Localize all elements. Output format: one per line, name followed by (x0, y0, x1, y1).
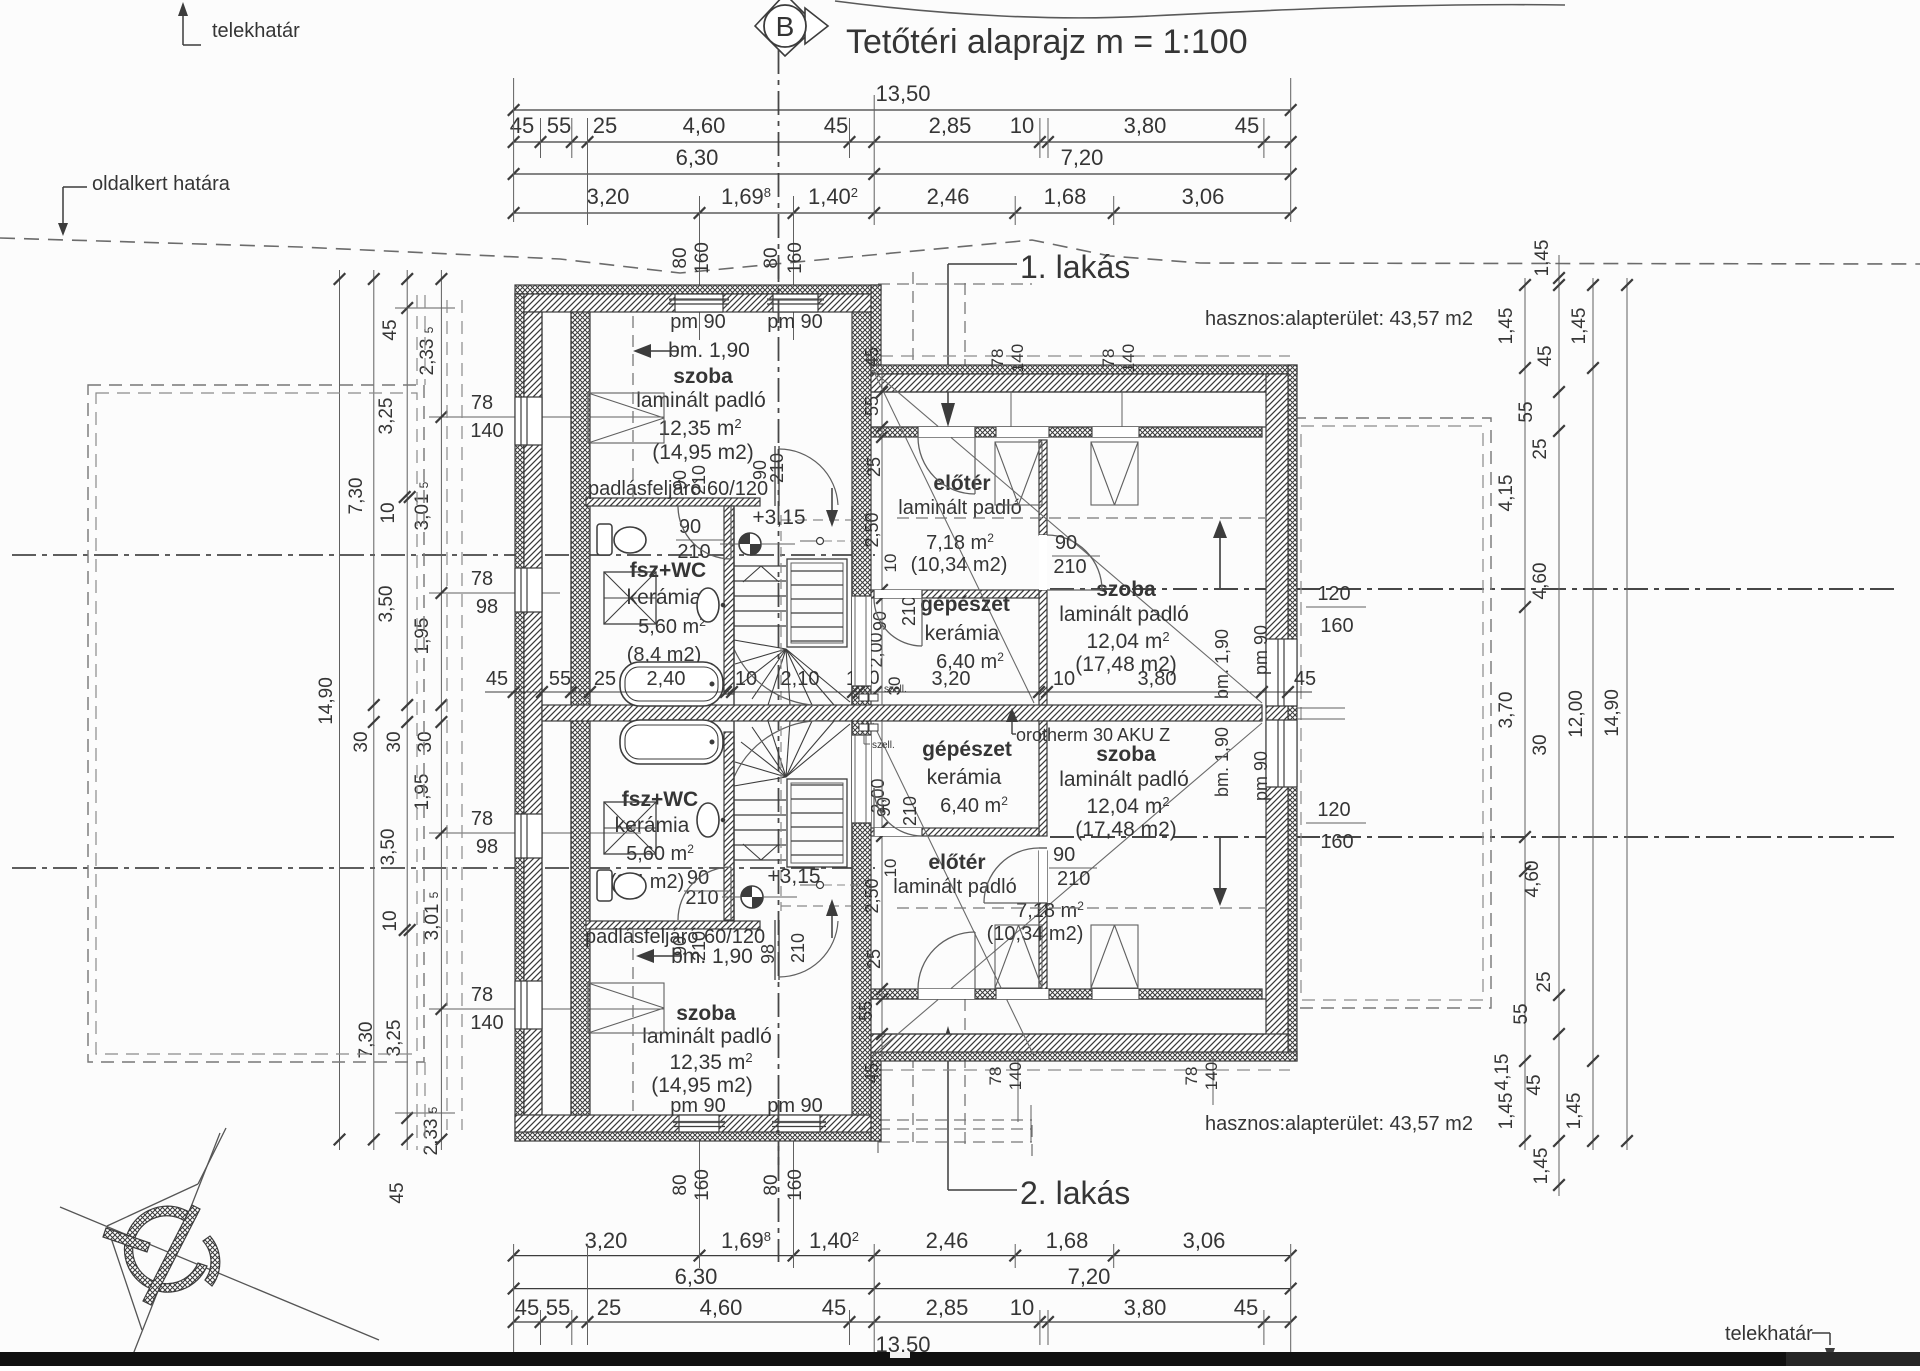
svg-text:160: 160 (692, 1169, 713, 1201)
svg-text:140: 140 (470, 420, 503, 442)
svg-text:oldalkert határa: oldalkert határa (92, 173, 231, 195)
svg-text:7,20: 7,20 (1068, 1264, 1111, 1289)
svg-text:3,50: 3,50 (376, 586, 397, 623)
svg-text:2,46: 2,46 (926, 1228, 969, 1253)
svg-text:90: 90 (1055, 532, 1077, 554)
svg-text:90: 90 (670, 936, 690, 956)
svg-text:2,33: 2,33 (421, 1119, 442, 1156)
svg-text:2,33: 2,33 (417, 339, 438, 376)
svg-text:pm 90: pm 90 (1251, 625, 1271, 675)
svg-text:fsz+WC: fsz+WC (622, 788, 698, 811)
svg-text:2,40: 2,40 (647, 668, 686, 690)
svg-text:10: 10 (881, 554, 900, 573)
svg-text:120: 120 (1317, 799, 1350, 821)
svg-text:45: 45 (822, 1295, 846, 1320)
svg-text:90: 90 (670, 470, 690, 490)
svg-text:szell.: szell. (872, 740, 895, 751)
svg-text:4,60: 4,60 (1522, 861, 1543, 898)
svg-text:3,20: 3,20 (585, 1228, 628, 1253)
svg-text:B: B (776, 11, 795, 42)
svg-text:12,04 m2: 12,04 m2 (1086, 794, 1169, 818)
svg-text:80: 80 (670, 1174, 691, 1195)
svg-text:3,01: 3,01 (412, 494, 433, 531)
svg-text:210: 210 (788, 933, 808, 963)
svg-text:7,30: 7,30 (346, 478, 367, 515)
svg-text:laminált padló: laminált padló (893, 876, 1016, 898)
svg-text:160: 160 (785, 242, 806, 274)
svg-text:45: 45 (1234, 1295, 1258, 1320)
svg-text:14,90: 14,90 (1602, 689, 1623, 737)
svg-text:45: 45 (1235, 113, 1259, 138)
svg-text:5: 5 (417, 481, 431, 488)
svg-text:55: 55 (546, 1295, 570, 1320)
svg-text:140: 140 (1202, 1062, 1221, 1090)
svg-text:(17,48 m2): (17,48 m2) (1075, 818, 1177, 841)
svg-text:98: 98 (476, 596, 498, 618)
svg-text:szoba: szoba (1096, 743, 1156, 766)
svg-text:10: 10 (1053, 668, 1075, 690)
svg-text:30: 30 (415, 731, 436, 752)
svg-text:pm 90: pm 90 (670, 1095, 726, 1117)
svg-text:80: 80 (670, 247, 691, 268)
svg-text:pm 90: pm 90 (670, 311, 726, 333)
svg-text:210: 210 (685, 887, 718, 909)
svg-text:140: 140 (1008, 344, 1027, 372)
svg-text:3,06: 3,06 (1182, 184, 1225, 209)
svg-text:bm. 1,90: bm. 1,90 (1212, 727, 1232, 797)
svg-text:12,04 m2: 12,04 m2 (1086, 629, 1169, 653)
svg-text:78: 78 (986, 1067, 1005, 1086)
svg-text:45: 45 (1535, 345, 1556, 366)
svg-text:kerámia: kerámia (925, 622, 1000, 645)
svg-text:2. lakás: 2. lakás (1020, 1175, 1130, 1211)
svg-text:gépészet: gépészet (920, 593, 1010, 616)
svg-text:10: 10 (378, 502, 399, 523)
svg-text:160: 160 (1320, 831, 1353, 853)
svg-text:25: 25 (593, 113, 617, 138)
svg-text:78: 78 (1182, 1067, 1201, 1086)
svg-text:7,30: 7,30 (356, 1022, 377, 1059)
svg-text:laminált padló: laminált padló (1059, 768, 1189, 791)
svg-text:laminált padló: laminált padló (898, 497, 1021, 519)
svg-text:25: 25 (1534, 971, 1555, 992)
svg-text:1,45: 1,45 (1532, 240, 1553, 277)
svg-text:szoba: szoba (673, 365, 733, 388)
svg-text:13,50: 13,50 (875, 81, 930, 106)
svg-text:3,80: 3,80 (1138, 668, 1177, 690)
svg-text:hasznos:alapterület: 43,57 m2: hasznos:alapterület: 43,57 m2 (1205, 308, 1473, 330)
svg-text:(14,95 m2): (14,95 m2) (652, 441, 754, 464)
svg-text:pm 90: pm 90 (767, 311, 823, 333)
svg-text:78: 78 (471, 984, 493, 1006)
svg-text:55: 55 (549, 668, 571, 690)
svg-text:210: 210 (689, 465, 709, 495)
svg-text:3,25: 3,25 (376, 398, 397, 435)
svg-text:1. lakás: 1. lakás (1020, 249, 1130, 285)
svg-text:10: 10 (881, 859, 900, 878)
svg-text:6,30: 6,30 (676, 145, 719, 170)
svg-text:45: 45 (862, 347, 882, 367)
svg-text:3,80: 3,80 (1124, 1295, 1167, 1320)
svg-text:160: 160 (785, 1169, 806, 1201)
svg-text:kerámia: kerámia (615, 814, 690, 837)
svg-text:4,15: 4,15 (1492, 1054, 1513, 1091)
svg-text:7,18 m2: 7,18 m2 (926, 531, 994, 554)
svg-text:1,95: 1,95 (412, 618, 433, 655)
svg-text:55: 55 (1511, 1003, 1532, 1024)
svg-text:szell.: szell. (884, 684, 907, 695)
svg-text:45: 45 (1294, 668, 1316, 690)
svg-text:5,60 m2: 5,60 m2 (638, 615, 706, 638)
svg-text:5: 5 (422, 326, 436, 333)
svg-text:4,60: 4,60 (1530, 563, 1551, 600)
svg-text:3,20: 3,20 (587, 184, 630, 209)
svg-text:2,10: 2,10 (781, 668, 820, 690)
svg-text:25: 25 (1530, 438, 1551, 459)
svg-text:1,698: 1,698 (721, 1228, 771, 1253)
svg-text:1,45: 1,45 (1564, 1093, 1585, 1130)
svg-text:98: 98 (476, 836, 498, 858)
svg-text:25: 25 (864, 949, 884, 969)
svg-text:30: 30 (351, 731, 372, 752)
svg-text:45: 45 (486, 668, 508, 690)
svg-text:45: 45 (1524, 1074, 1545, 1095)
svg-text:90: 90 (1053, 844, 1075, 866)
svg-text:5: 5 (427, 891, 441, 898)
svg-text:78: 78 (1099, 349, 1118, 368)
svg-text:1,402: 1,402 (808, 184, 858, 209)
svg-text:Tetőtéri alaprajz m = 1:100: Tetőtéri alaprajz m = 1:100 (846, 23, 1248, 61)
svg-text:+3,15: +3,15 (767, 865, 820, 888)
svg-text:1,402: 1,402 (809, 1228, 859, 1253)
svg-text:10: 10 (735, 668, 757, 690)
svg-text:10: 10 (1010, 113, 1034, 138)
svg-text:55: 55 (856, 1001, 876, 1021)
svg-text:55: 55 (1516, 401, 1537, 422)
svg-text:140: 140 (1006, 1062, 1025, 1090)
svg-text:szoba: szoba (676, 1002, 736, 1025)
svg-text:3,70: 3,70 (1496, 692, 1517, 729)
svg-text:78: 78 (471, 808, 493, 830)
svg-text:10: 10 (380, 910, 401, 931)
svg-text:3,06: 3,06 (1183, 1228, 1226, 1253)
svg-text:1,45: 1,45 (1531, 1148, 1552, 1185)
svg-text:80: 80 (761, 1174, 782, 1195)
svg-text:210: 210 (899, 596, 919, 626)
svg-text:3,01: 3,01 (422, 904, 443, 941)
svg-text:210: 210 (1053, 556, 1086, 578)
svg-text:+3,15: +3,15 (752, 506, 805, 529)
svg-text:2,85: 2,85 (929, 113, 972, 138)
svg-text:3,50: 3,50 (378, 829, 399, 866)
svg-text:(10,34 m2): (10,34 m2) (987, 923, 1084, 945)
svg-text:210: 210 (767, 453, 787, 483)
svg-text:telekhatár: telekhatár (1725, 1323, 1813, 1345)
svg-text:5: 5 (426, 1106, 440, 1113)
svg-text:2,50: 2,50 (862, 878, 882, 913)
svg-text:210: 210 (689, 931, 709, 961)
svg-text:6,30: 6,30 (675, 1264, 718, 1289)
svg-text:45: 45 (824, 113, 848, 138)
svg-text:45: 45 (380, 319, 401, 340)
svg-text:laminált padló: laminált padló (1059, 603, 1189, 626)
svg-text:78: 78 (471, 392, 493, 414)
svg-text:1,45: 1,45 (1496, 1093, 1517, 1130)
svg-text:1,45: 1,45 (1569, 308, 1590, 345)
svg-text:210: 210 (1057, 868, 1090, 890)
svg-text:(14,95 m2): (14,95 m2) (651, 1074, 753, 1097)
svg-text:55: 55 (862, 396, 882, 416)
svg-text:4,15: 4,15 (1496, 475, 1517, 512)
svg-text:(10,34 m2): (10,34 m2) (911, 554, 1008, 576)
svg-text:4,60: 4,60 (683, 113, 726, 138)
svg-text:4,60: 4,60 (700, 1295, 743, 1320)
svg-text:25: 25 (864, 457, 884, 477)
svg-text:10: 10 (1010, 1295, 1034, 1320)
svg-text:pm 90: pm 90 (1251, 751, 1271, 801)
svg-text:12,00: 12,00 (1566, 690, 1587, 738)
svg-text:45: 45 (862, 1063, 882, 1083)
svg-text:25: 25 (594, 668, 616, 690)
svg-text:telekhatár: telekhatár (212, 20, 300, 42)
svg-text:pm 90: pm 90 (767, 1095, 823, 1117)
svg-text:210: 210 (900, 796, 920, 826)
svg-text:kerámia: kerámia (927, 766, 1002, 789)
svg-text:bm. 1,90: bm. 1,90 (1212, 629, 1232, 699)
svg-text:laminált padló: laminált padló (642, 1025, 772, 1048)
svg-text:25: 25 (597, 1295, 621, 1320)
svg-text:előtér: előtér (928, 851, 985, 874)
svg-text:7,20: 7,20 (1061, 145, 1104, 170)
svg-text:orotherm 30 AKU Z: orotherm 30 AKU Z (1016, 725, 1170, 745)
svg-text:szoba: szoba (1096, 578, 1156, 601)
svg-text:140: 140 (470, 1012, 503, 1034)
svg-text:160: 160 (692, 242, 713, 274)
svg-text:1,68: 1,68 (1044, 184, 1087, 209)
svg-text:14,90: 14,90 (316, 677, 337, 725)
svg-text:3,25: 3,25 (384, 1020, 405, 1057)
svg-text:6,40 m2: 6,40 m2 (940, 794, 1008, 817)
svg-text:3,20: 3,20 (932, 668, 971, 690)
svg-text:1,698: 1,698 (721, 184, 771, 209)
svg-text:1,45: 1,45 (1496, 308, 1517, 345)
svg-text:30: 30 (384, 731, 405, 752)
svg-text:45: 45 (515, 1295, 539, 1320)
svg-text:bm. 1,90: bm. 1,90 (668, 339, 750, 362)
svg-text:30: 30 (1530, 734, 1551, 755)
svg-text:gépészet: gépészet (922, 738, 1012, 761)
svg-text:55: 55 (547, 113, 571, 138)
svg-text:2,46: 2,46 (927, 184, 970, 209)
svg-text:2,50: 2,50 (862, 512, 882, 547)
svg-text:3,80: 3,80 (1124, 113, 1167, 138)
svg-text:120: 120 (1317, 583, 1350, 605)
svg-text:90: 90 (874, 797, 894, 817)
svg-text:45: 45 (387, 1182, 408, 1203)
svg-text:160: 160 (1320, 615, 1353, 637)
svg-text:12,35 m2: 12,35 m2 (658, 416, 741, 440)
svg-text:78: 78 (471, 568, 493, 590)
svg-text:12,35 m2: 12,35 m2 (669, 1050, 752, 1074)
svg-text:hasznos:alapterület: 43,57 m2: hasznos:alapterület: 43,57 m2 (1205, 1113, 1473, 1135)
svg-text:78: 78 (988, 349, 1007, 368)
svg-text:1,68: 1,68 (1046, 1228, 1089, 1253)
svg-text:140: 140 (1119, 344, 1138, 372)
svg-text:2,85: 2,85 (926, 1295, 969, 1320)
svg-text:1,95: 1,95 (412, 774, 433, 811)
